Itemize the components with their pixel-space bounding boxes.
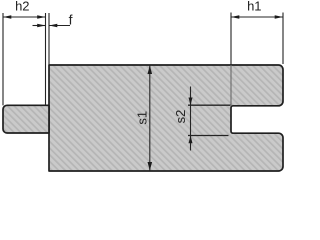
dimension h1: dimension line bbox=[231, 16, 283, 18]
dimension h1: extension line left (into groove corner) bbox=[230, 13, 232, 66]
body profile (grooved board cross-section) bbox=[49, 65, 283, 171]
dimension h2: left arrowhead bbox=[3, 15, 11, 19]
dimension s1: top arrowhead bbox=[148, 66, 153, 75]
dimension h1: extension line right bbox=[282, 13, 284, 65]
dimension h2: right arrowhead bbox=[37, 15, 45, 19]
dimension f: left arrow with tail bbox=[33, 25, 46, 27]
dimension s2: extension line bottom bbox=[188, 135, 229, 137]
svg-text:h2: h2 bbox=[15, 0, 29, 14]
dimension s1: bottom arrowhead bbox=[148, 162, 153, 171]
dimension s2: top arrowhead (outside, pointing down) bbox=[189, 98, 193, 106]
dimension h1: extension line left, portion over hatch bbox=[230, 65, 232, 105]
dimension h2: extension line left bbox=[2, 13, 4, 105]
dimension s2: dimension line bbox=[190, 87, 192, 151]
dimension s1: dimension line bbox=[149, 65, 151, 170]
tongue (loose spline) bbox=[3, 105, 49, 133]
dimension h2/f: extension line at tongue end bbox=[45, 13, 47, 105]
dimension s2: extension line top bbox=[188, 104, 231, 106]
dimension f: extension line at board edge bbox=[48, 13, 50, 65]
dimension s2: bottom arrowhead (outside, pointing up) bbox=[189, 136, 193, 144]
svg-text:f: f bbox=[69, 11, 73, 27]
svg-text:s2: s2 bbox=[173, 110, 188, 124]
svg-text:s1: s1 bbox=[135, 111, 150, 125]
dimension h1: right arrowhead bbox=[275, 15, 283, 19]
dimension f: right arrow with tail bbox=[49, 25, 70, 27]
dimension h2: dimension line bbox=[3, 16, 46, 18]
svg-text:h1: h1 bbox=[247, 0, 261, 14]
dimension h1: left arrowhead bbox=[231, 15, 239, 19]
